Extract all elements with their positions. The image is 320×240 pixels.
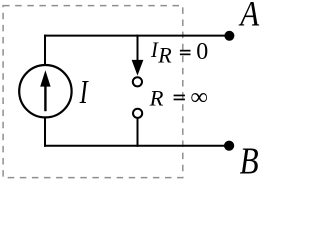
wire: bottom open terminal to bottom rail: [137, 118, 139, 147]
wire: left vertical, top rail to current source: [44, 35, 46, 65]
svg-text:0: 0: [196, 39, 208, 65]
svg-text:I: I: [79, 75, 89, 112]
svg-text:R: R: [149, 85, 164, 110]
open terminal, bottom of broken branch: [133, 109, 142, 118]
wire: bottom rail: [44, 145, 229, 147]
current source I: [19, 65, 71, 117]
terminal node B: [224, 141, 234, 151]
label R = infinity: [149, 85, 208, 111]
label I_R = 0: [150, 37, 208, 67]
dashed enclosure box: [3, 6, 183, 178]
svg-text:B: B: [240, 139, 259, 182]
wire: left vertical, current source to bottom rail: [44, 118, 46, 147]
wire: middle branch from top rail with current arrow: [132, 35, 144, 76]
svg-text:∞: ∞: [191, 85, 208, 111]
terminal node A: [224, 31, 234, 41]
svg-text:R: R: [157, 42, 172, 67]
svg-text:A: A: [238, 0, 259, 34]
wire: top rail: [44, 35, 229, 37]
open terminal, top of broken branch: [133, 77, 142, 86]
